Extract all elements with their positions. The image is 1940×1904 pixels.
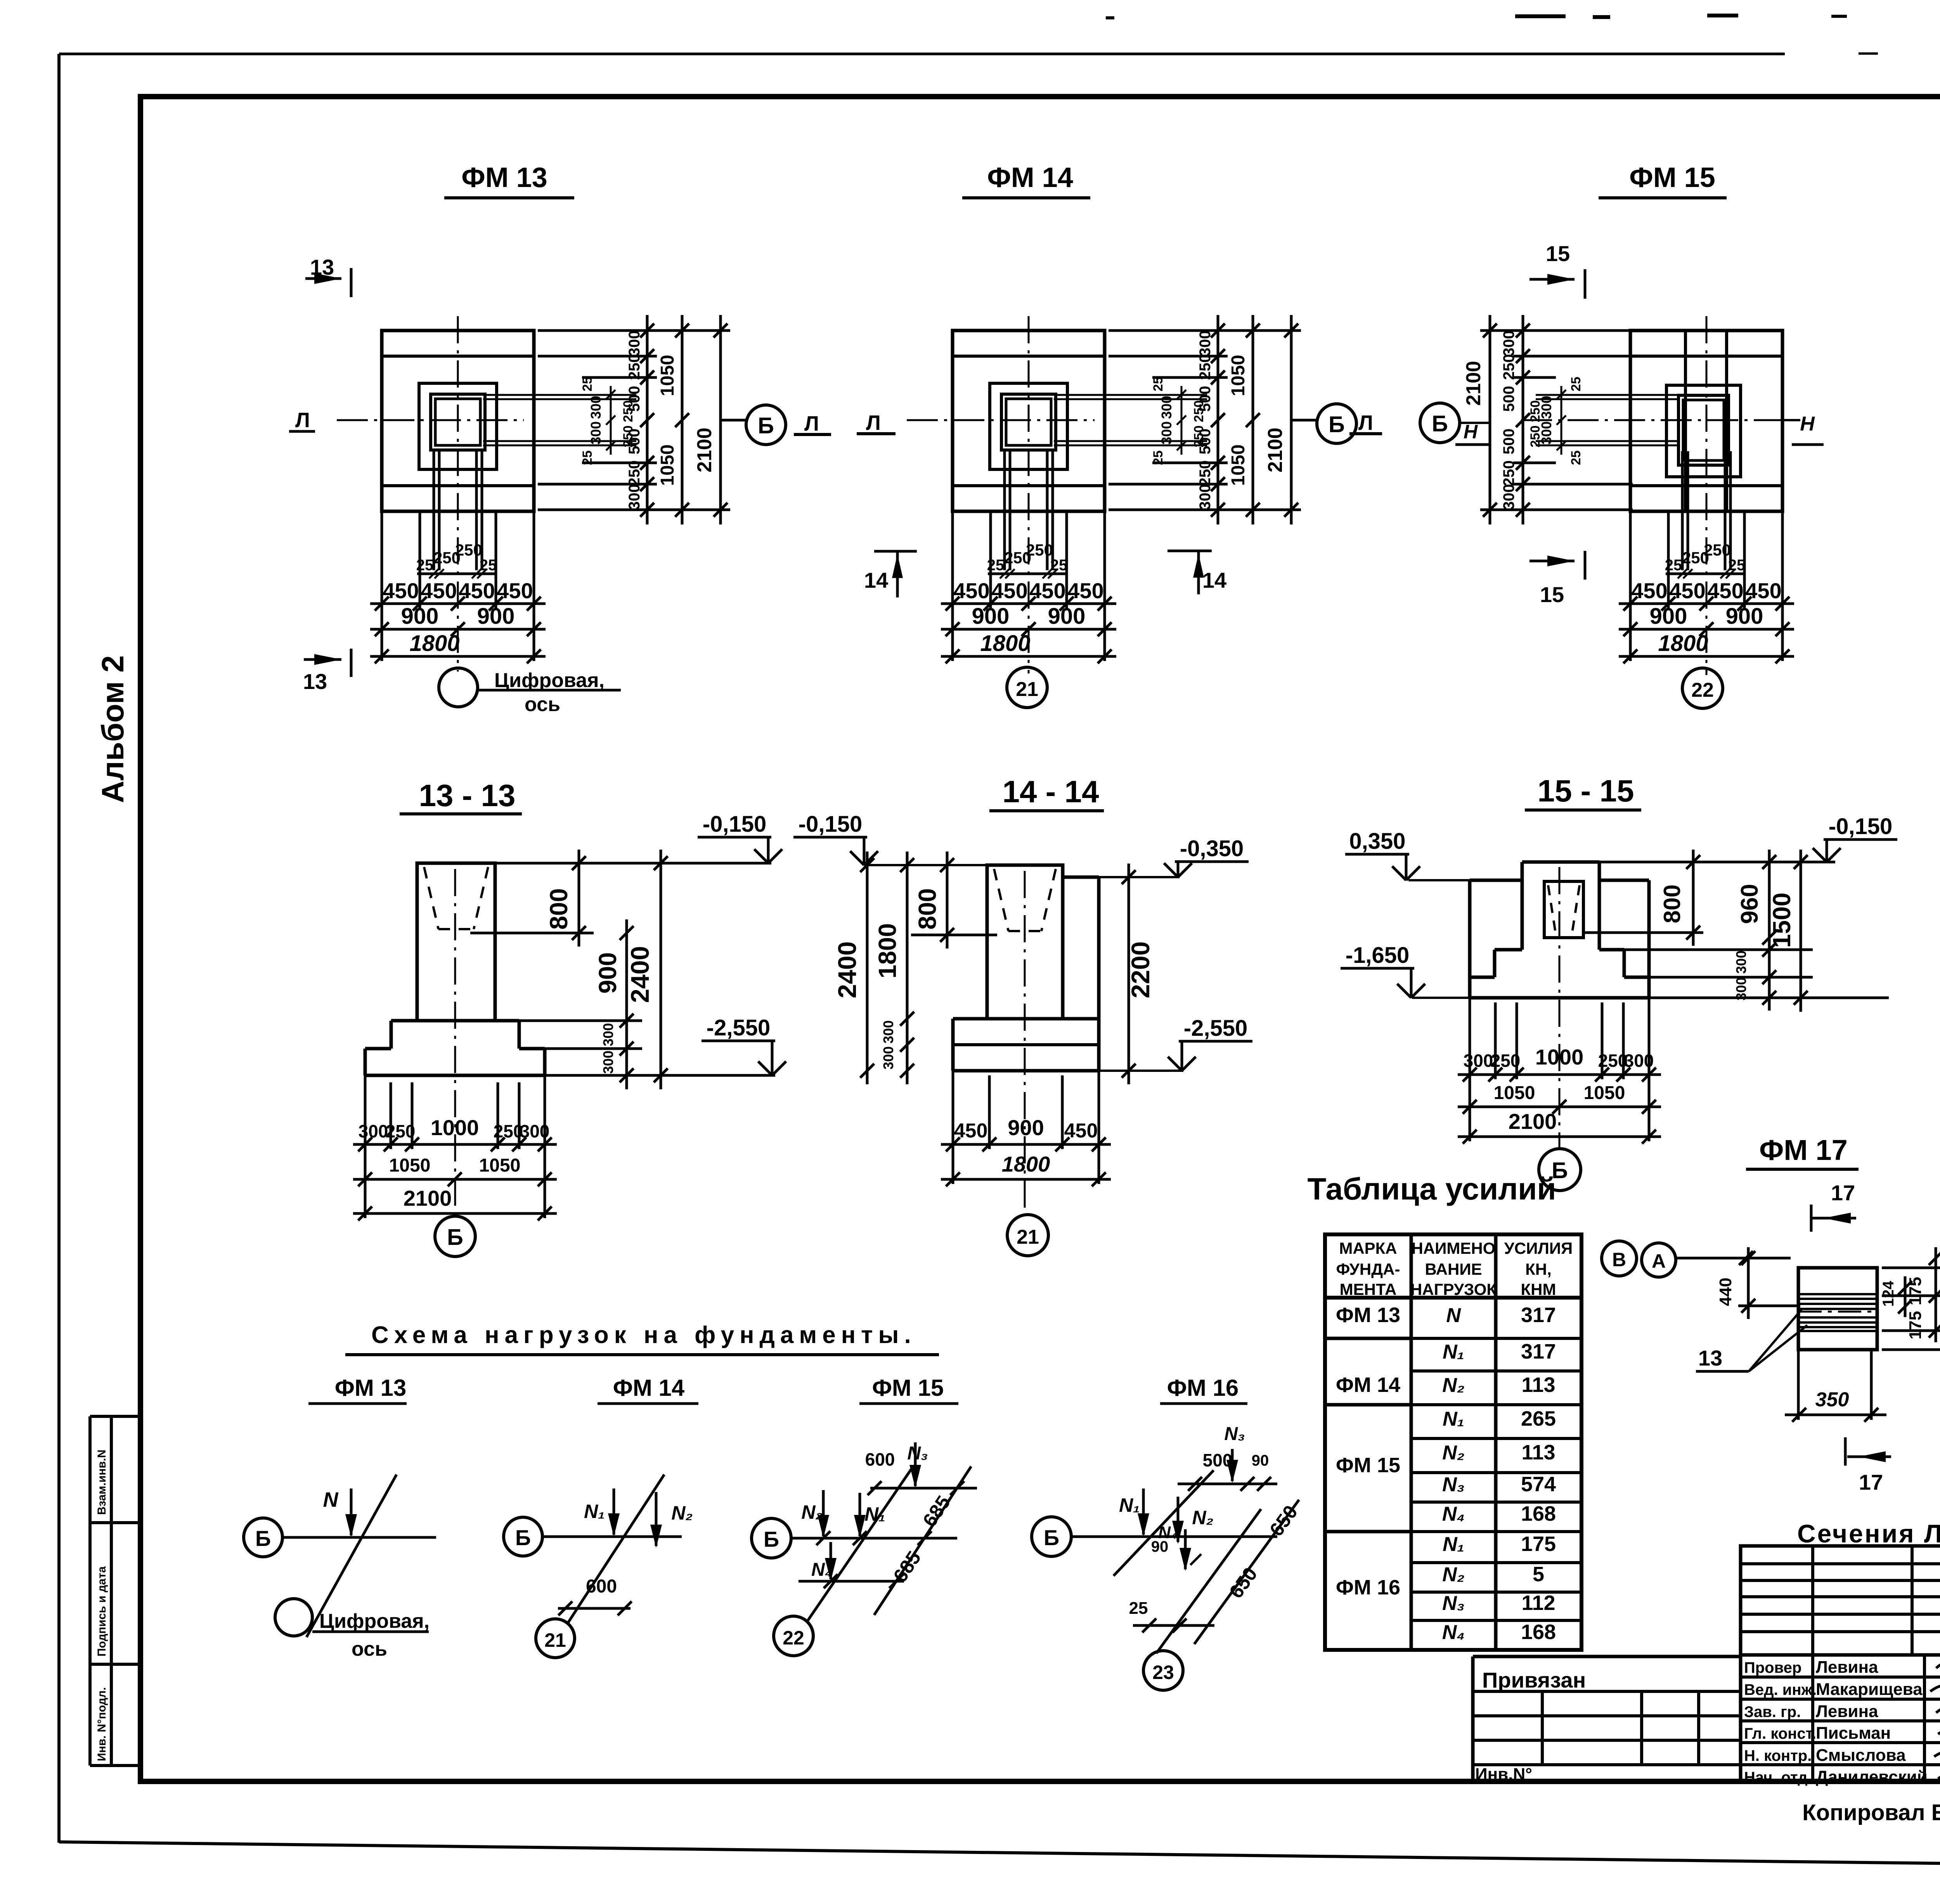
- dim row 450s: [941, 602, 1116, 605]
- svg-text:МАРКА: МАРКА: [1339, 1239, 1397, 1257]
- svg-text:Сечения Л-Л ; Н-Н см. на: Сечения Л-Л ; Н-Н см. на листе 12 .: [1797, 1519, 1940, 1548]
- svg-text:25: 25: [580, 377, 595, 391]
- svg-text:Нач. отд.: Нач. отд.: [1744, 1769, 1812, 1786]
- svg-text:1050: 1050: [479, 1155, 521, 1176]
- svg-text:250: 250: [1197, 354, 1214, 380]
- svg-text:N: N: [323, 1488, 339, 1511]
- svg-text:22: 22: [783, 1627, 804, 1649]
- anchor bolt small dims: [417, 573, 495, 575]
- svg-text:15: 15: [1546, 241, 1570, 266]
- svg-text:2400: 2400: [833, 942, 861, 999]
- svg-text:1050: 1050: [657, 355, 678, 396]
- 15-15 dim 1500: [1800, 850, 1802, 1012]
- plan FM14 column: [1001, 394, 1056, 450]
- svg-text:N₄: N₄: [1442, 1503, 1465, 1525]
- svg-text:500: 500: [626, 386, 643, 412]
- side stamp boxes: [88, 1416, 92, 1766]
- svg-text:265: 265: [1521, 1407, 1556, 1430]
- axis circle B FM14 right: [1317, 404, 1356, 443]
- 14-14 bottom dims: [941, 1143, 1111, 1146]
- svg-text:Н. контр.: Н. контр.: [1744, 1747, 1812, 1764]
- svg-text:Б: Б: [447, 1225, 463, 1250]
- svg-text:-0,150: -0,150: [799, 812, 862, 837]
- section 14-14 axis: [1024, 871, 1026, 1214]
- 13-13 right leaders: [495, 862, 771, 865]
- svg-text:450: 450: [1745, 578, 1781, 603]
- axis circle 21 under FM14: [1007, 667, 1047, 708]
- forces table: [1325, 1234, 1581, 1650]
- svg-text:N₂: N₂: [1442, 1374, 1464, 1397]
- 13-13 axis circle B: [435, 1216, 475, 1257]
- svg-text:N₂: N₂: [671, 1502, 693, 1524]
- section 15-15 socket cavity: [1544, 881, 1583, 938]
- svg-text:250: 250: [1704, 541, 1731, 559]
- svg-text:N: N: [1446, 1304, 1461, 1327]
- privyazan table: [1473, 1655, 1741, 1658]
- svg-text:А: А: [1652, 1250, 1666, 1272]
- svg-text:175: 175: [1521, 1532, 1556, 1556]
- svg-text:450: 450: [954, 1120, 988, 1142]
- svg-text:1050: 1050: [1228, 445, 1249, 486]
- section 14-14 column: [987, 865, 1063, 1019]
- dim row 450s: [1619, 602, 1794, 605]
- svg-text:В: В: [1612, 1249, 1626, 1270]
- svg-text:90: 90: [1252, 1452, 1269, 1469]
- svg-text:N₁: N₁: [1443, 1533, 1464, 1556]
- svg-text:450: 450: [1631, 578, 1667, 603]
- plan FM14 outline: [953, 331, 1105, 511]
- svg-text:450: 450: [383, 578, 419, 603]
- svg-text:21: 21: [544, 1629, 566, 1651]
- svg-text:15: 15: [1540, 582, 1564, 607]
- svg-text:Б: Б: [1044, 1525, 1059, 1550]
- 13-13 dims 900/300/300: [625, 919, 628, 1089]
- svg-text:УСИЛИЯ: УСИЛИЯ: [1504, 1239, 1573, 1257]
- svg-text:21: 21: [1016, 678, 1038, 701]
- svg-text:Таблица усилий: Таблица усилий: [1307, 1172, 1556, 1206]
- svg-text:КНМ: КНМ: [1521, 1280, 1556, 1298]
- section 13-13 axis: [454, 869, 456, 1216]
- svg-text:Б: Б: [255, 1526, 271, 1551]
- FM17 axis circles B A: [1602, 1241, 1637, 1276]
- svg-text:2200: 2200: [1126, 942, 1155, 999]
- plan FM15 axes: [1706, 316, 1708, 675]
- svg-text:300: 300: [359, 1121, 388, 1141]
- leader lines FM14: [1109, 329, 1301, 332]
- svg-text:300: 300: [1159, 421, 1174, 445]
- FM17 bottom dim 350: [1797, 1350, 1800, 1420]
- svg-text:ось: ось: [352, 1638, 387, 1660]
- FM17 marker 17 bottom: [1844, 1437, 1847, 1466]
- 15-15 dims 300/300: [1762, 943, 1776, 957]
- svg-text:250: 250: [626, 460, 643, 486]
- svg-text:1050: 1050: [657, 445, 678, 486]
- svg-text:450: 450: [953, 578, 989, 603]
- plan FM13 axes: [457, 316, 459, 672]
- svg-text:ФМ 15: ФМ 15: [1629, 162, 1715, 193]
- svg-text:450: 450: [991, 578, 1027, 603]
- svg-text:350: 350: [1815, 1388, 1849, 1411]
- section 15-15 outer: [1470, 879, 1522, 882]
- svg-text:Данилевский: Данилевский: [1816, 1767, 1928, 1786]
- section 15-15 axis: [1559, 867, 1561, 1149]
- svg-text:300: 300: [1500, 484, 1517, 510]
- svg-text:ФМ 15: ФМ 15: [1336, 1454, 1400, 1477]
- 15-15 bottom dims: [1458, 1073, 1661, 1076]
- plan FM15 pedestal: [1666, 385, 1741, 477]
- svg-text:Левина: Левина: [1816, 1658, 1878, 1677]
- svg-text:450: 450: [1707, 578, 1743, 603]
- svg-text:600: 600: [865, 1449, 895, 1470]
- plan FM14 pedestal: [990, 383, 1067, 469]
- svg-text:ФМ 14: ФМ 14: [987, 162, 1073, 193]
- section 15-15 pedestal step: [1495, 948, 1522, 952]
- plan FM15 outline: [1630, 331, 1782, 511]
- svg-text:13 - 13: 13 - 13: [419, 778, 515, 813]
- 14-14 right dim 2200: [1128, 864, 1130, 1084]
- vertical dim chain 1050/1050: [1252, 315, 1254, 524]
- svg-text:450: 450: [1029, 578, 1065, 603]
- svg-text:5: 5: [1533, 1563, 1544, 1586]
- svg-text:Л: Л: [295, 408, 310, 432]
- svg-text:2100: 2100: [1509, 1109, 1557, 1134]
- svg-text:ФМ 15: ФМ 15: [872, 1375, 944, 1401]
- svg-text:250: 250: [626, 354, 643, 380]
- svg-text:300: 300: [626, 331, 643, 357]
- svg-text:Л: Л: [866, 411, 881, 434]
- load scheme FM14: [504, 1517, 542, 1556]
- load scheme FM15: [752, 1518, 791, 1558]
- svg-text:1050: 1050: [1584, 1083, 1625, 1103]
- svg-text:1800: 1800: [1002, 1152, 1050, 1176]
- svg-text:1800: 1800: [1658, 631, 1708, 656]
- svg-text:440: 440: [1716, 1277, 1735, 1306]
- svg-text:N₂: N₂: [1442, 1442, 1464, 1464]
- svg-text:ось: ось: [525, 693, 560, 716]
- svg-text:ФМ 16: ФМ 16: [1336, 1576, 1400, 1599]
- load scheme FM16: [1032, 1517, 1071, 1556]
- svg-text:14: 14: [1202, 568, 1226, 592]
- dim row 900s: [941, 628, 1116, 631]
- svg-text:Цифровая,: Цифровая,: [319, 1610, 430, 1632]
- axis circle B FM15 left: [1420, 403, 1460, 443]
- svg-text:Инв.N°: Инв.N°: [1475, 1765, 1532, 1784]
- svg-text:168: 168: [1521, 1620, 1556, 1644]
- svg-text:Подпись и дата: Подпись и дата: [95, 1566, 108, 1656]
- svg-text:1000: 1000: [431, 1115, 479, 1140]
- svg-text:N₁: N₁: [584, 1501, 605, 1522]
- svg-text:15 - 15: 15 - 15: [1537, 774, 1634, 808]
- svg-text:N₃: N₃: [1442, 1592, 1465, 1615]
- svg-text:17: 17: [1859, 1470, 1883, 1494]
- svg-text:ФМ 14: ФМ 14: [1336, 1373, 1400, 1397]
- svg-text:МЕНТА: МЕНТА: [1340, 1280, 1397, 1298]
- svg-text:13: 13: [1698, 1346, 1722, 1370]
- svg-text:N₂: N₂: [1442, 1563, 1464, 1586]
- svg-text:450: 450: [1064, 1120, 1098, 1142]
- svg-text:-0,350: -0,350: [1180, 836, 1244, 861]
- dim row 450s: [370, 602, 546, 605]
- svg-text:2100: 2100: [693, 428, 716, 473]
- leader lines FM13: [538, 329, 730, 332]
- svg-text:22: 22: [1691, 679, 1714, 701]
- svg-text:Макарищева: Макарищева: [1816, 1680, 1923, 1699]
- 14-14 left dims 800: [946, 852, 949, 949]
- svg-text:Б: Б: [1432, 411, 1448, 436]
- svg-text:25: 25: [1129, 1599, 1148, 1618]
- svg-text:Провер: Провер: [1744, 1659, 1801, 1676]
- svg-text:N₃: N₃: [1224, 1424, 1245, 1444]
- 13-13 dim 800: [578, 850, 580, 947]
- svg-text:800: 800: [1659, 884, 1685, 923]
- svg-text:1800: 1800: [980, 631, 1030, 656]
- svg-text:300: 300: [1733, 977, 1749, 1000]
- svg-text:ФМ 13: ФМ 13: [461, 162, 547, 193]
- dim row 900s: [1619, 628, 1794, 631]
- svg-text:250: 250: [1528, 400, 1543, 422]
- svg-text:N₃: N₃: [1442, 1473, 1465, 1496]
- svg-text:14: 14: [864, 568, 888, 592]
- svg-text:Б: Б: [758, 413, 774, 438]
- svg-text:250: 250: [1500, 354, 1517, 380]
- svg-text:112: 112: [1521, 1591, 1555, 1615]
- svg-text:300: 300: [1197, 484, 1214, 510]
- svg-text:Левина: Левина: [1816, 1702, 1878, 1721]
- svg-text:ФМ 13: ФМ 13: [335, 1375, 407, 1401]
- svg-text:1050: 1050: [1494, 1083, 1535, 1103]
- svg-text:113: 113: [1521, 1373, 1555, 1397]
- svg-text:90: 90: [1151, 1538, 1169, 1555]
- svg-text:N₁: N₁: [1443, 1408, 1464, 1430]
- svg-text:Копировал Еремченко: Копировал Еремченко: [1802, 1800, 1940, 1825]
- sheet outer edge bottom line: [59, 1842, 1940, 1870]
- 13-13 bottom dims: [353, 1143, 557, 1146]
- svg-text:250: 250: [1528, 426, 1543, 448]
- svg-text:500: 500: [1197, 386, 1214, 412]
- svg-text:300: 300: [1500, 331, 1517, 357]
- svg-text:250: 250: [1026, 541, 1053, 559]
- svg-text:N₄: N₄: [1442, 1621, 1465, 1644]
- FM17 block: [1798, 1268, 1877, 1350]
- sheet outer edge left line: [57, 54, 61, 1843]
- svg-text:Б: Б: [764, 1527, 779, 1551]
- svg-text:Альбом 2: Альбом 2: [95, 655, 130, 803]
- section marker 14 bottom-left: [874, 550, 917, 553]
- svg-text:N₁: N₁: [1443, 1341, 1464, 1363]
- vertical dim chain 1050/1050: [681, 315, 684, 524]
- svg-text:25: 25: [1569, 377, 1583, 391]
- svg-text:ФМ 14: ФМ 14: [613, 1375, 685, 1401]
- svg-text:317: 317: [1521, 1340, 1556, 1363]
- svg-text:450: 450: [421, 578, 457, 603]
- 14-14 dim 2400: [866, 852, 869, 1084]
- svg-text:Б: Б: [1329, 412, 1345, 437]
- svg-text:N₂: N₂: [1192, 1507, 1213, 1528]
- sheet outer edge top line: [59, 53, 1785, 55]
- dim row 900s: [370, 628, 546, 631]
- svg-text:2400: 2400: [625, 946, 654, 1003]
- top scan artifacts: [1515, 14, 1566, 18]
- section 14-14 right wall: [1063, 876, 1099, 879]
- dim row 1800: [1619, 655, 1794, 658]
- svg-text:23: 23: [1152, 1662, 1174, 1683]
- load scheme FM13: [244, 1518, 282, 1557]
- svg-text:НАИМЕНО: НАИМЕНО: [1412, 1239, 1496, 1257]
- svg-text:-0,150: -0,150: [1829, 814, 1892, 839]
- 14-14 dims 1800/300/300: [906, 852, 909, 1084]
- 13-13 dim 2400: [660, 850, 662, 1089]
- svg-text:Л: Л: [804, 412, 819, 435]
- svg-text:НАГРУЗОК: НАГРУЗОК: [1410, 1280, 1497, 1298]
- title block: upper revision table: [1741, 1546, 1940, 1655]
- svg-text:1050: 1050: [389, 1155, 431, 1176]
- svg-text:2100: 2100: [1264, 428, 1287, 473]
- svg-text:300: 300: [880, 1046, 896, 1070]
- svg-text:1000: 1000: [1535, 1045, 1584, 1069]
- svg-text:124: 124: [1880, 1281, 1897, 1307]
- svg-text:600: 600: [586, 1576, 617, 1597]
- svg-text:317: 317: [1521, 1303, 1556, 1327]
- svg-text:Л: Л: [1358, 411, 1373, 434]
- section 13-13 column: [417, 863, 495, 1021]
- svg-text:N₁: N₁: [1119, 1494, 1140, 1516]
- svg-text:300: 300: [880, 1020, 896, 1044]
- dim row 1800: [370, 655, 546, 658]
- section marker 14 bottom-right: [1167, 550, 1212, 552]
- svg-text:300: 300: [600, 1051, 616, 1074]
- section 15-15 column stub: [1522, 860, 1599, 864]
- svg-text:250: 250: [1500, 460, 1517, 486]
- svg-text:17: 17: [1831, 1180, 1855, 1205]
- 15-15 dim 800: [1692, 850, 1695, 946]
- svg-text:Б: Б: [515, 1525, 531, 1550]
- svg-text:300: 300: [1733, 950, 1749, 974]
- anchor bolt small dims: [988, 573, 1065, 575]
- svg-text:250: 250: [455, 541, 482, 559]
- svg-text:300: 300: [1464, 1051, 1493, 1071]
- svg-text:2100: 2100: [1462, 361, 1485, 406]
- svg-text:Письман: Письман: [1816, 1724, 1891, 1743]
- section 14-14 slab: [953, 1017, 987, 1021]
- svg-text:300: 300: [600, 1023, 616, 1046]
- title block: signature rows: [1741, 1655, 1940, 1781]
- svg-text:Схема нагрузок на фундамент: Схема нагрузок на фундаменты.: [371, 1322, 916, 1348]
- svg-text:25: 25: [1151, 377, 1166, 391]
- svg-text:900: 900: [594, 952, 622, 994]
- vertical dim chain 2100: [719, 315, 722, 524]
- svg-text:13: 13: [303, 669, 327, 694]
- svg-text:Цифровая,: Цифровая,: [494, 669, 605, 692]
- anchor bolt slots: [1054, 394, 1207, 396]
- svg-text:14 - 14: 14 - 14: [1002, 774, 1099, 809]
- svg-text:2100: 2100: [404, 1186, 452, 1210]
- svg-text:Вед. инж.: Вед. инж.: [1744, 1681, 1817, 1698]
- svg-text:21: 21: [1017, 1226, 1039, 1248]
- svg-text:-2,550: -2,550: [707, 1015, 770, 1040]
- svg-text:-0,150: -0,150: [703, 812, 766, 837]
- svg-text:N₁: N₁: [864, 1503, 885, 1525]
- svg-text:0,350: 0,350: [1349, 829, 1405, 854]
- svg-text:1800: 1800: [409, 631, 459, 656]
- svg-text:ФМ 16: ФМ 16: [1167, 1375, 1239, 1401]
- svg-text:Привязан: Привязан: [1482, 1668, 1586, 1692]
- svg-text:1800: 1800: [873, 923, 901, 978]
- svg-text:175: 175: [1906, 1277, 1925, 1305]
- svg-text:450: 450: [497, 578, 533, 603]
- svg-text:КН,: КН,: [1525, 1260, 1552, 1278]
- plan FM13 outline: [382, 331, 534, 511]
- svg-text:300: 300: [1159, 396, 1174, 419]
- svg-text:ФУНДА-: ФУНДА-: [1336, 1260, 1400, 1278]
- svg-text:Зав. гр.: Зав. гр.: [1744, 1703, 1801, 1721]
- svg-text:300: 300: [1197, 331, 1214, 357]
- svg-text:900: 900: [1008, 1115, 1044, 1140]
- svg-text:175: 175: [1906, 1311, 1925, 1339]
- plan FM15 column: [1678, 395, 1729, 465]
- svg-text:800: 800: [913, 888, 941, 930]
- plan FM13 pedestal: [419, 383, 497, 469]
- svg-text:-2,550: -2,550: [1184, 1016, 1247, 1041]
- vertical dim chain 300-250-500-500-250-300: [1217, 315, 1219, 524]
- 15-15 axis circle B: [1539, 1149, 1581, 1191]
- svg-text:960: 960: [1736, 884, 1763, 924]
- svg-text:500: 500: [1500, 429, 1517, 455]
- svg-text:ВАНИЕ: ВАНИЕ: [1425, 1260, 1482, 1278]
- FM17 hatch bands: [1798, 1293, 1877, 1295]
- svg-text:25: 25: [1569, 450, 1583, 465]
- vertical dim chain 2100: [1290, 315, 1293, 524]
- svg-text:300: 300: [588, 421, 604, 445]
- plan FM13 column: [431, 394, 485, 450]
- svg-text:300: 300: [626, 484, 643, 510]
- svg-text:1500: 1500: [1768, 893, 1796, 948]
- 15-15 right leaders: [1599, 861, 1835, 864]
- svg-text:-1,650: -1,650: [1346, 943, 1409, 968]
- section 13-13 step: [391, 1019, 417, 1023]
- svg-text:574: 574: [1521, 1473, 1556, 1496]
- svg-text:Гл. конст.: Гл. конст.: [1744, 1725, 1816, 1742]
- svg-text:450: 450: [1067, 578, 1103, 603]
- svg-text:350: 350: [1938, 1300, 1940, 1331]
- svg-text:ФМ 17: ФМ 17: [1759, 1134, 1848, 1166]
- vertical dim chain 300-250-500-500-250-300: [646, 315, 649, 524]
- svg-text:250: 250: [1197, 460, 1214, 486]
- leader lines FM15: [1480, 329, 1633, 332]
- svg-text:Инв. N°подл.: Инв. N°подл.: [95, 1687, 108, 1761]
- axis circle B FM13: [746, 405, 786, 445]
- svg-text:ФМ 13: ФМ 13: [1336, 1303, 1400, 1327]
- axis circle 22 under FM15: [1682, 668, 1723, 708]
- anchor bolt slots: [483, 394, 636, 396]
- svg-text:113: 113: [1521, 1441, 1555, 1464]
- dim row 1800: [941, 655, 1116, 658]
- FM15 left dim chains: [1522, 315, 1524, 524]
- svg-text:Н: Н: [1464, 421, 1478, 443]
- 15-15 dim 960: [1768, 850, 1771, 950]
- 14-14 axis circle 21: [1007, 1215, 1048, 1256]
- svg-text:450: 450: [459, 578, 495, 603]
- svg-text:500: 500: [626, 429, 643, 455]
- plan FM15 vertical channel: [1684, 331, 1687, 511]
- section 13-13 slab: [365, 1047, 391, 1051]
- svg-text:300: 300: [588, 396, 604, 419]
- svg-text:1050: 1050: [1228, 355, 1249, 396]
- digital axis circle FM13: [439, 668, 478, 707]
- svg-text:800: 800: [545, 888, 573, 930]
- svg-text:500: 500: [1500, 386, 1517, 412]
- svg-text:Смыслова: Смыслова: [1816, 1746, 1906, 1765]
- svg-text:Н: Н: [1800, 413, 1815, 435]
